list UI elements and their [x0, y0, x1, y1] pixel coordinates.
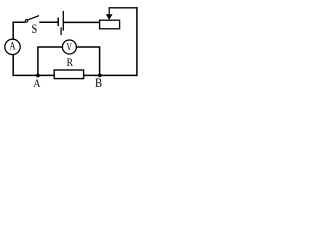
- switch S pivot circle: [25, 20, 28, 23]
- ammeter U1 circle: [5, 39, 20, 54]
- svg-text:B: B: [95, 78, 102, 91]
- svg-text:R: R: [67, 56, 74, 69]
- svg-text:V: V: [67, 41, 73, 54]
- svg-text:S: S: [32, 23, 38, 36]
- junction node A dot: [36, 74, 40, 78]
- wire: voltmeter branch left vertical: [37, 47, 39, 76]
- wire: top-left horizontal (corner to switch pivot): [12, 21, 25, 23]
- wire: bottom horizontal: [12, 74, 136, 76]
- rheostat wiper arrowhead: [106, 14, 113, 20]
- wire: top connector (wiper to right side): [109, 7, 138, 9]
- wire: left vertical (top corner down to ammeter): [12, 22, 14, 40]
- junction node B dot: [98, 74, 102, 78]
- voltmeter circle: [62, 40, 76, 54]
- rheostat wiper arrow stem: [108, 8, 110, 15]
- wire: left vertical (ammeter down to bottom corner): [12, 54, 14, 76]
- battery long plate (positive): [62, 11, 64, 31]
- wire: battery to rheostat: [63, 21, 100, 23]
- rheostat body: [100, 20, 120, 29]
- stray tick below battery: [60, 27, 62, 35]
- wire: voltmeter branch top-left horizontal: [37, 46, 63, 48]
- svg-text:A: A: [9, 40, 16, 53]
- svg-text:A: A: [33, 77, 40, 90]
- background: [0, 0, 145, 91]
- wire: voltmeter branch top-right horizontal: [76, 46, 101, 48]
- wire: right vertical: [136, 7, 138, 76]
- wire: switch to battery: [39, 21, 58, 23]
- switch S lever: [28, 16, 39, 20]
- battery short plate (negative): [57, 18, 59, 27]
- resistor R body: [54, 70, 83, 79]
- wire: voltmeter branch right vertical: [99, 47, 101, 75]
